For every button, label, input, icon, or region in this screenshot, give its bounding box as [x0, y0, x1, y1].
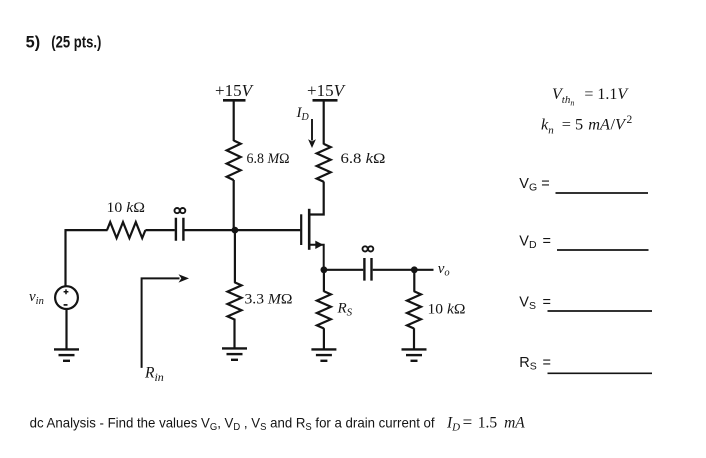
capacitor C2 value ∞: [363, 246, 374, 251]
answer row V_G: [519, 176, 549, 194]
source v_in circle: [55, 286, 78, 309]
svg-text:10 kΩ: 10 kΩ: [428, 302, 466, 318]
parameter k_n = 5 mA/V²: [541, 114, 632, 137]
wire: right supply to R 6.8k: [323, 100, 325, 144]
parameter V_thn = 1.1V: [552, 86, 629, 108]
current label I_D: [296, 105, 310, 123]
wire: gate node to R 3.3M: [234, 230, 236, 283]
wire: vo node to R_L: [413, 270, 415, 292]
ground under R 3.3M: [222, 348, 247, 359]
source v_in plus: [64, 289, 69, 294]
answer row R_S: [519, 355, 551, 373]
svg-text:VS: VS: [519, 294, 536, 312]
caption dc analysis: [30, 415, 435, 434]
transistor M1 source lead with arrow: [310, 241, 324, 270]
svg-text:(25 pts.): (25 pts.): [51, 33, 101, 51]
svg-text:Vthn = 1.1V: Vthn = 1.1V: [552, 86, 629, 108]
resistor 6.8 MΩ: [227, 141, 241, 181]
label 6.8 MΩ: [247, 151, 290, 167]
svg-text:vo: vo: [438, 261, 450, 279]
svg-text:=: =: [543, 234, 551, 250]
label R_in: [144, 365, 164, 385]
wire: v_in to ground: [65, 309, 67, 349]
svg-text:+15V: +15V: [307, 81, 347, 100]
node: vo node dot: [411, 266, 418, 273]
wire: source node to output cap: [324, 269, 363, 271]
label 3.3 MΩ: [245, 292, 293, 308]
ground under R_L: [402, 349, 427, 360]
capacitor C1 plates: [176, 218, 184, 241]
node: source node dot: [321, 266, 328, 273]
ground under v_in: [54, 349, 79, 360]
wire: R_L to ground: [413, 328, 415, 348]
svg-text:dc Analysis - Find the values: dc Analysis - Find the values VG, VD , V…: [30, 415, 435, 434]
+15V supply left label: [215, 81, 255, 100]
label v_in: [29, 289, 44, 307]
wire: R 3.3M to ground: [233, 319, 235, 348]
svg-text:5): 5): [26, 33, 41, 51]
wire: R 6.8k to drain: [310, 182, 324, 215]
wire: input R to cap C1: [145, 229, 174, 231]
label 6.8 kΩ: [341, 151, 386, 167]
wire: source node to R_S: [323, 270, 325, 292]
caption drain current value I_D = 1.5 mA: [446, 413, 525, 434]
svg-text:=: =: [543, 294, 551, 310]
node: gate node dot: [232, 227, 239, 234]
resistor 10 kΩ load: [407, 291, 421, 328]
+15V supply right bar: [313, 99, 338, 102]
wire: left drop to v_in: [64, 229, 66, 287]
resistor 6.8 kΩ: [317, 144, 331, 182]
svg-text:VD: VD: [519, 234, 537, 252]
svg-text:VG: VG: [519, 176, 537, 194]
label v_o: [438, 261, 450, 279]
capacitor C1 value ∞: [175, 208, 186, 213]
svg-text:Rin: Rin: [144, 365, 164, 385]
resistor R_S: [317, 291, 331, 328]
+15V supply left bar: [223, 99, 246, 102]
svg-text:6.8 kΩ: 6.8 kΩ: [341, 151, 386, 167]
resistor 3.3 MΩ: [228, 282, 242, 319]
answer row V_D: [519, 234, 551, 252]
svg-text:vin: vin: [29, 289, 44, 307]
label 10 kΩ load: [428, 302, 466, 318]
resistor 10 kΩ input: [107, 222, 145, 238]
svg-text:kn = 5 mA/V2: kn = 5 mA/V2: [541, 114, 632, 137]
label 10 kΩ input: [107, 200, 146, 216]
transistor M1 channel bar: [308, 209, 311, 250]
svg-text:=: =: [541, 176, 549, 192]
svg-text:RS: RS: [519, 355, 537, 373]
wire: vo node stub: [414, 269, 433, 271]
source v_in minus: [64, 304, 68, 306]
ground under R_S: [311, 349, 336, 360]
svg-text:+15V: +15V: [215, 81, 255, 100]
svg-text:3.3 MΩ: 3.3 MΩ: [245, 292, 293, 308]
label R_S: [337, 301, 353, 319]
wire: output cap to vo node: [373, 269, 415, 271]
svg-text:ID=1.5mA: ID=1.5mA: [446, 413, 525, 434]
capacitor C2 plates: [364, 258, 371, 281]
current arrow I_D: [308, 119, 316, 148]
wire: input main wire left segment: [65, 229, 107, 231]
+15V supply right label: [307, 81, 347, 100]
wire: cap C1 to gate: [185, 229, 301, 231]
transistor M1 gate bar: [300, 214, 302, 245]
svg-text:=: =: [543, 355, 551, 371]
svg-text:RS: RS: [337, 301, 353, 319]
header problem number: [26, 33, 102, 51]
answer row V_S: [519, 294, 551, 312]
wire: R_S to ground: [323, 328, 325, 348]
svg-text:ID: ID: [296, 105, 310, 123]
R_in measurement arrow: [142, 274, 189, 368]
wire: left supply to R 6.8M: [233, 100, 235, 141]
wire: R 6.8M to gate node: [233, 180, 235, 231]
svg-text:6.8 MΩ: 6.8 MΩ: [247, 151, 290, 167]
svg-text:10 kΩ: 10 kΩ: [107, 200, 146, 216]
